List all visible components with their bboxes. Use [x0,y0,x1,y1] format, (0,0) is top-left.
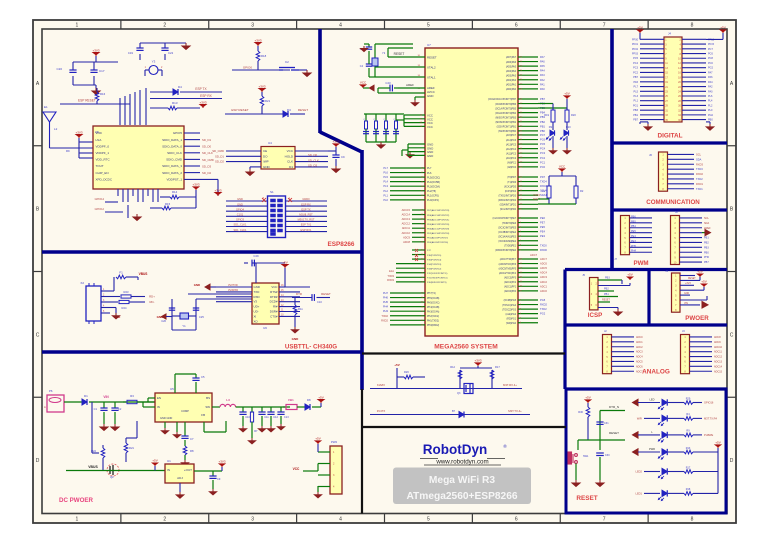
flash left wires [226,150,261,152]
svg-text:D1: D1 [289,165,293,169]
wire pwm b pin [680,261,703,263]
ldo U3 [165,464,194,483]
svg-text:PB0: PB0 [704,251,709,254]
svg-text:M3T.TX.4+: M3T.TX.4+ [508,409,522,413]
wire analog b pin [690,370,713,372]
ground [291,327,298,333]
svg-text:2: 2 [163,23,166,29]
resistor R4 [684,417,693,421]
diode D7 [459,412,464,418]
svg-text:+3V3: +3V3 [332,139,339,143]
svg-text:USBTTL- CH340G: USBTTL- CH340G [285,344,337,351]
svg-text:ESP TX: ESP TX [195,87,207,91]
svg-text:(AD2)PA2: (AD2)PA2 [506,79,517,82]
wire analog b pin [690,365,713,367]
svg-text:C20: C20 [56,67,62,71]
svg-text:1: 1 [76,517,79,523]
svg-text:(AD0)PA0: (AD0)PA0 [506,88,517,91]
svg-text:ESP RX: ESP RX [301,202,311,206]
svg-text:C: C [36,332,40,338]
power +5V ldo in [152,463,157,466]
svg-text:PL0: PL0 [383,198,388,202]
green rail vbus to regulator [66,470,160,472]
svg-text:8: 8 [691,23,694,29]
mcu left group PH [390,292,425,294]
svg-text:PH5(OC4C): PH5(OC4C) [427,302,440,304]
svg-text:(A14)PC6: (A14)PC6 [506,139,517,142]
wire pwm b pin [680,222,703,224]
mosfet Q3 [464,384,473,394]
svg-text:C29: C29 [253,254,259,258]
svg-text:ESP RESET: ESP RESET [78,99,96,103]
svg-text:(A10)PC2: (A10)PC2 [506,157,517,160]
svg-text:PA6: PA6 [708,76,713,79]
svg-text:(A13)PC5: (A13)PC5 [506,143,517,146]
resistor R9 [684,433,693,437]
svg-text:+5V: +5V [627,272,632,276]
svg-text:ADC2: ADC2 [636,346,643,349]
svg-text:7: 7 [603,23,606,29]
svg-text:VIN: VIN [103,395,109,399]
mcu gnd pins [408,143,425,145]
svg-text:ADC10: ADC10 [714,346,723,349]
svg-text:4: 4 [339,23,342,29]
svg-text:GND: GND [263,165,271,169]
decoupling caps row [364,113,404,115]
svg-text:ADC11: ADC11 [714,351,722,354]
svg-text:Q2: Q2 [110,475,114,479]
svg-text:PC1: PC1 [540,160,546,164]
svg-text:ADC0: ADC0 [540,289,547,293]
svg-text:SD_D2: SD_D2 [215,160,224,164]
net label ESP TX [180,91,222,93]
svg-text:C25: C25 [199,315,204,319]
input caps [103,402,105,408]
svg-text:PH2(XCK2): PH2(XCK2) [427,316,439,318]
svg-text:ADC7: ADC7 [636,370,643,373]
wire digital right pin [682,86,706,88]
svg-text:RXD2: RXD2 [540,303,547,307]
wire [73,61,118,63]
svg-text:(A8)PC0: (A8)PC0 [507,166,517,169]
svg-text:RXD3: RXD3 [696,162,703,166]
svg-text:LED2: LED2 [636,470,643,474]
svg-text:PC4: PC4 [540,147,546,151]
svg-text:PL7: PL7 [427,167,432,170]
svg-text:PB6: PB6 [631,215,636,218]
svg-text:PC7: PC7 [540,133,546,137]
svg-text:R21: R21 [129,446,134,450]
ground [92,88,100,95]
wire pwm b pin [680,217,703,219]
svg-text:PL7: PL7 [383,166,388,170]
wire communication pin [668,168,695,170]
wire digital right pin [682,57,706,59]
divider mega bottom black [362,352,565,354]
svg-text:PK6(ADC14/PCINT22): PK6(ADC14/PCINT22) [427,214,450,217]
svg-text:RESET: RESET [394,52,405,56]
svg-text:R8: R8 [190,449,194,453]
svg-text:D4: D4 [178,85,182,89]
svg-text:GPIO5: GPIO5 [173,131,183,135]
divider icsp left vertical [563,270,566,390]
connector S1 esp header [268,196,286,238]
svg-text:SD_D1: SD_D1 [202,138,211,142]
svg-text:PH4(OC4B): PH4(OC4B) [427,307,439,309]
svg-text:+5V: +5V [585,395,590,399]
svg-text:PB7: PB7 [633,76,638,79]
svg-text:(OC3C/INT5)PE5: (OC3C/INT5)PE5 [498,227,517,229]
divider logo left black vertical [361,389,363,514]
svg-text:ADC14: ADC14 [402,213,411,217]
svg-text:Y1: Y1 [182,324,186,328]
wire digital left pin [640,38,664,40]
svg-text:Y3: Y3 [152,60,156,64]
svg-text:C9: C9 [217,477,221,481]
svg-text:ADC6: ADC6 [636,365,643,368]
svg-text:PL5: PL5 [383,175,388,179]
svg-text:X2: X2 [80,281,84,285]
wire digital right pin [682,95,706,97]
ground crystal mega [364,43,369,45]
svg-text:PA6: PA6 [540,60,545,64]
svg-text:PC6: PC6 [540,138,546,142]
svg-text:C19: C19 [128,51,134,55]
svg-text:(SCL/INT0)PD0: (SCL/INT0)PD0 [500,209,517,211]
resistor R16 [95,92,99,101]
svg-text:ADC14: ADC14 [714,365,723,368]
svg-text:SD1_CLK1: SD1_CLK1 [234,223,248,227]
en wire [148,397,155,399]
svg-text:TXD2: TXD2 [696,177,703,181]
divider mega-left vertical [360,150,364,390]
push button SW1 [568,452,577,464]
svg-text:PC4: PC4 [633,62,638,65]
svg-text:UD-: UD- [254,310,259,314]
svg-text:ATmega2560+ESP8266: ATmega2560+ESP8266 [406,491,517,502]
ground [100,424,108,431]
svg-text:+3V3: +3V3 [192,182,199,186]
vin arrow [702,302,708,309]
svg-text:+3V3: +3V3 [254,38,261,42]
wire pwm a pin [630,241,653,243]
svg-text:ADC9: ADC9 [714,341,721,344]
svg-text:(T0)PD7: (T0)PD7 [507,177,516,179]
svg-text:PB3: PB3 [633,109,638,112]
svg-text:(OC1B/PCINT6)PB6: (OC1B/PCINT6)PB6 [495,104,517,106]
svg-text:D10: D10 [566,126,571,129]
svg-text:GPIO0: GPIO0 [243,66,253,70]
svg-text:+3V3: +3V3 [685,282,691,285]
svg-text:GND: GND [254,285,260,289]
svg-text:PL1(ICP5): PL1(ICP5) [427,195,439,198]
svg-text:/WP: /WP [263,160,269,164]
svg-text:RXD4: RXD4 [540,184,547,188]
svg-text:(AD1)PA1: (AD1)PA1 [506,84,517,87]
svg-text:PE5: PE5 [631,230,636,233]
svg-text:D: D [730,458,734,464]
svg-text:PJ6(PCINT15): PJ6(PCINT15) [427,255,441,257]
svg-text:(ADC3)PF3: (ADC3)PF3 [504,276,517,279]
usb connector X2 [86,286,101,321]
divider diagonal [320,132,362,152]
wire analog a pin [612,360,635,362]
svg-text:(TOSC2)PG3: (TOSC2)PG3 [502,309,516,311]
wire digital right pin [682,104,706,106]
svg-text:(TXD0)PE1: (TXD0)PE1 [504,246,516,248]
svg-text:(ALE)PG2: (ALE)PG2 [506,313,517,316]
svg-text:DSR#: DSR# [270,310,278,314]
ground pw2 [317,486,319,492]
svg-text:RESET: RESET [321,292,331,296]
svg-text:GND0: GND0 [302,197,310,201]
svg-text:(ADC5/TMS)PF5: (ADC5/TMS)PF5 [499,267,517,270]
ch340 right wires [279,286,310,288]
svg-text:SD_D3: SD_D3 [202,164,211,168]
mcu U7 ATmega2560 [425,48,518,336]
svg-text:SD_D0: SD_D0 [202,145,211,149]
svg-text:(OC3A/AIN1)PE3: (OC3A/AIN1)PE3 [498,235,517,238]
wire communication pin [668,163,695,165]
wire analog b pin [690,336,713,338]
svg-text:L2: L2 [54,127,58,131]
wire analog a pin [612,341,635,343]
led WiFi [662,415,667,421]
led L [662,432,667,438]
svg-text:SD_D2: SD_D2 [202,171,211,175]
wire digital right pin [682,114,706,116]
svg-text:4: 4 [339,517,342,523]
svg-text:SDIO_DATA_0: SDIO_DATA_0 [162,144,182,148]
svg-text:M3T.RX.4+: M3T.RX.4+ [503,383,517,387]
svg-text:PL2: PL2 [383,189,388,193]
power +3V3 switch [475,363,480,366]
svg-text:PE3: PE3 [540,234,545,238]
svg-text:+3V3: +3V3 [218,459,225,463]
svg-text:ADC12: ADC12 [402,222,411,226]
capacitor C31 [596,422,603,424]
resistor R30 [587,403,589,407]
wire pwm b pin [680,227,703,229]
reset section box [566,389,726,513]
svg-text:R17: R17 [686,466,691,469]
svg-text:C1: C1 [94,407,98,411]
svg-text:C10: C10 [245,415,250,419]
wire digital left pin [640,86,664,88]
svg-text:(A12)PC4: (A12)PC4 [506,148,517,151]
wire digital left pin [640,43,664,45]
svg-text:R30: R30 [578,410,583,414]
svg-text:PC3: PC3 [633,67,638,70]
svg-text:SD_CLK: SD_CLK [308,158,319,162]
svg-text:(AD5)PA5: (AD5)PA5 [506,65,517,68]
svg-text:U4: U4 [268,141,272,145]
svg-text:(OC0B)PG5: (OC0B)PG5 [504,300,517,302]
bootstrap cap C5 [174,374,176,393]
svg-text:RXD2: RXD2 [381,318,388,322]
svg-text:ADC8: ADC8 [714,336,721,339]
ground usb [110,307,116,309]
svg-text:ADC5: ADC5 [540,266,547,270]
svg-text:PL3: PL3 [634,95,639,98]
wire digital right pin [682,62,706,64]
frame column ticks and numbers [120,20,122,29]
svg-text:SW1: SW1 [583,455,589,458]
svg-text:PG2: PG2 [708,67,714,70]
ground [299,69,307,71]
svg-text:K2: K2 [285,60,289,64]
svg-text:PH6: PH6 [704,256,709,259]
svg-text:+5V: +5V [394,363,399,367]
wire analog a pin [612,365,635,367]
svg-text:GND: GND [237,197,243,201]
svg-text:COMP: COMP [181,409,189,413]
svg-text:GND: GND [237,202,243,206]
fuse F1 [110,290,114,292]
svg-text:RXD1: RXD1 [696,182,703,186]
mcu right group PF adc [518,258,538,260]
svg-text:PL4(OC5B): PL4(OC5B) [427,181,440,184]
svg-text:PB1: PB1 [704,237,709,240]
svg-text:(SS/PCINT0)PB0: (SS/PCINT0)PB0 [498,131,516,133]
svg-text:PK4(ADC12/PCINT20): PK4(ADC12/PCINT20) [427,223,450,226]
wire pwm a pin [630,217,653,219]
svg-text:IN: IN [157,405,160,409]
svg-text:C5: C5 [201,375,205,379]
crystal Y1 circuit [374,44,376,77]
ground [332,166,340,173]
wire digital left pin [640,62,664,64]
led LED [662,399,667,405]
svg-text:PA0: PA0 [540,87,545,91]
esp power pins wires [76,135,82,139]
svg-text:R16: R16 [100,92,106,96]
svg-text:FB1: FB1 [288,398,294,402]
mcu right group PG [518,299,538,301]
svg-text:PC5: PC5 [633,57,638,60]
svg-text:D8: D8 [307,398,311,402]
svg-text:PB3: PB3 [605,277,610,280]
wire analog b pin [690,360,713,362]
connector J2 analog a [603,335,612,374]
connector J4 digital [664,37,682,122]
svg-text:DC PWOER: DC PWOER [59,497,94,504]
svg-text:(ADC1)PF1: (ADC1)PF1 [504,286,517,289]
svg-text:PL2(T5): PL2(T5) [427,190,436,193]
svg-text:PL6: PL6 [427,172,432,175]
wire [232,69,290,71]
wire digital left pin [640,48,664,50]
svg-text:CTS#: CTS# [270,314,278,318]
svg-text:R7: R7 [254,429,258,433]
svg-text:D3: D3 [287,108,291,112]
svg-text:M3U1TX_RST: M3U1TX_RST [298,218,315,222]
svg-text:PL3: PL3 [383,184,388,188]
svg-text:RXD: RXD [254,295,260,299]
svg-text:C2: C2 [118,407,122,411]
connector J8 pwm b [671,216,680,265]
frame row ticks and letters [33,145,42,147]
power +3V3 flash [335,147,337,151]
svg-text:PL2: PL2 [708,104,713,107]
svg-text:+5V: +5V [637,25,642,29]
output caps c10 c11 [242,407,244,412]
svg-text:SCL: SCL [696,152,702,156]
svg-text:PB2: PB2 [604,288,609,291]
svg-text:+3V3: +3V3 [75,130,82,134]
svg-text:ADC13: ADC13 [402,217,411,221]
comp rc [184,422,186,436]
svg-text:ANALOG: ANALOG [642,369,670,376]
capacitor C19 [136,48,143,50]
svg-text:R9: R9 [66,149,70,153]
wire analog b pin [690,341,713,343]
svg-text:PF00: PF00 [632,38,639,41]
svg-text:(SDA/INT1)PD1: (SDA/INT1)PD1 [500,204,517,207]
ch340 left wires [216,286,252,288]
svg-text:GND: GND [427,94,433,98]
svg-text:PA4: PA4 [540,69,545,73]
svg-text:SD_D3: SD_D3 [308,164,317,168]
svg-text:PC3: PC3 [540,151,546,155]
svg-text:PB1: PB1 [540,124,545,128]
resistor R15 [150,207,162,209]
svg-text:E1A: E1A [389,269,394,273]
svg-text:M3T.TX.R4: M3T.TX.R4 [704,416,718,420]
svg-text:SD_D0: SD_D0 [308,153,317,157]
svg-text:PC0: PC0 [540,165,546,169]
svg-text:PF15: PF15 [708,43,715,46]
svg-text:PL6: PL6 [708,95,713,98]
svg-text:GPIO3: GPIO3 [236,218,244,222]
wire avcc [377,88,379,93]
svg-text:ESP RESET: ESP RESET [231,108,248,112]
wire net1 [370,388,522,390]
svg-text:ADC1: ADC1 [636,341,643,344]
svg-text:HOLD: HOLD [285,154,294,158]
dcdc converter U5 [155,393,212,422]
svg-text:GPIO4: GPIO4 [236,207,244,211]
svg-text:(ADC2)PF2: (ADC2)PF2 [504,281,517,284]
ldo gnd [179,483,181,492]
svg-text:SDA4: SDA4 [540,193,547,197]
esp ic bottom pins bus [117,189,119,196]
wire pwm b pin [680,237,703,239]
svg-text:PH3: PH3 [383,309,389,313]
svg-text:GPIO12: GPIO12 [95,207,105,211]
gnd left arrow [140,286,142,288]
svg-text:ADC11: ADC11 [402,226,411,230]
svg-text:(SCK/PCINT1)PB1: (SCK/PCINT1)PB1 [497,127,517,129]
svg-text:U1: U1 [167,459,171,463]
wire net2 [370,414,530,416]
svg-text:XTAL1: XTAL1 [427,76,436,80]
svg-text:(CLKO/ICP3/INT7)PE7: (CLKO/ICP3/INT7)PE7 [493,218,517,220]
resistor R29 [684,401,693,405]
svg-text:5: 5 [427,23,430,29]
wire communication pin [668,173,695,175]
svg-text:+3V3: +3V3 [258,84,265,88]
svg-text:PL1: PL1 [383,193,388,197]
svg-text:PH1(TXD2): PH1(TXD2) [427,321,439,323]
power +5V ch340 [282,265,288,269]
svg-text:PE6: PE6 [540,216,545,220]
svg-text:SD_CMD: SD_CMD [212,149,224,153]
wire analog b pin [690,356,713,358]
s1 left wires [226,200,268,202]
svg-text:A: A [44,405,46,409]
wire pwm a pin [630,232,653,234]
